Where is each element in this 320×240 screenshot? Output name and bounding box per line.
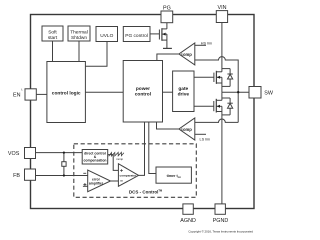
ground under PG transistor xyxy=(166,40,168,48)
wire LS drain to SW node xyxy=(221,92,223,100)
wire error amplifier output to DCS comparator xyxy=(111,180,119,182)
node Vref stub to error amplifier + input xyxy=(83,185,88,187)
svg-text:gate: gate xyxy=(178,86,188,92)
pin PG xyxy=(161,11,173,23)
box timer ton xyxy=(156,167,191,183)
op-amp DCS comparator xyxy=(118,164,138,187)
wire direct control to DCS comparator input xyxy=(108,155,119,171)
svg-text:AGND: AGND xyxy=(180,218,196,224)
svg-text:comparator: comparator xyxy=(119,174,137,178)
svg-text:power: power xyxy=(136,86,150,92)
node FB junction xyxy=(63,174,65,176)
wire soft start to control logic xyxy=(52,41,54,62)
svg-text:PG: PG xyxy=(163,5,171,11)
svg-text:UVLO: UVLO xyxy=(100,33,113,39)
svg-text:comp: comp xyxy=(181,127,193,132)
op-amp error amplifier xyxy=(83,170,110,192)
box thermal shutdown xyxy=(68,26,90,41)
svg-text:SW: SW xyxy=(264,90,274,96)
svg-text:Soft: Soft xyxy=(48,29,57,35)
box power control xyxy=(123,61,162,123)
svg-text:Copyright © 2016, Texas Instru: Copyright © 2016, Texas Instruments Inco… xyxy=(188,230,253,234)
wire HS comp sense input to SW node (hop over VIN line) xyxy=(195,57,238,93)
wire EN to control logic xyxy=(36,93,47,95)
svg-text:ramp: ramp xyxy=(116,157,123,161)
node HS lim reference stub xyxy=(195,44,206,46)
op-amp comp LS current limit xyxy=(179,118,195,140)
wire DCS comparator output to power control xyxy=(139,122,145,175)
transistor Q3 low-side FET xyxy=(214,99,222,113)
svg-text:VIN: VIN xyxy=(218,5,227,11)
ramp sawtooth symbol xyxy=(109,152,124,156)
wire gate drive to LS FET gate xyxy=(194,105,214,107)
wire timer to power control xyxy=(149,122,156,174)
svg-text:compensation: compensation xyxy=(84,159,107,163)
wire LS comp sense input to SW node (hop over output line) xyxy=(195,119,238,122)
box UVLO xyxy=(96,27,118,42)
svg-text:PG control: PG control xyxy=(125,33,148,39)
svg-text:start: start xyxy=(48,35,58,41)
wire thermal shutdown to control logic xyxy=(78,41,80,62)
wire LS comp output to power control xyxy=(157,122,179,129)
svg-text:Shtdwn: Shtdwn xyxy=(71,35,87,41)
svg-text:control logic: control logic xyxy=(52,91,81,97)
svg-text:PGND: PGND xyxy=(213,218,229,224)
node VOS junction xyxy=(63,152,65,154)
svg-text:FB: FB xyxy=(13,173,20,179)
PG transistor Q1 xyxy=(159,23,167,41)
pin AGND xyxy=(183,204,193,214)
wire VIN to HS FET drain xyxy=(221,23,223,72)
pin PGND xyxy=(215,204,225,214)
wire FB line to error amplifier xyxy=(36,175,88,177)
svg-text:control: control xyxy=(135,92,151,98)
wire HS source to SW node xyxy=(221,83,223,92)
box soft start xyxy=(42,26,63,41)
node LS lim reference stub xyxy=(195,133,206,135)
op-amp comp HS current limit xyxy=(179,43,195,65)
node SW sense junction xyxy=(237,91,239,93)
wire SW sense vertical xyxy=(237,92,239,122)
transistor Q2 high-side FET xyxy=(214,71,222,84)
wire HS comp output to power control xyxy=(157,54,179,61)
pin VIN xyxy=(216,11,227,23)
svg-text:HS lim: HS lim xyxy=(201,42,212,46)
svg-text:VOS: VOS xyxy=(8,151,20,157)
resistor R1 divider between VOS and FB xyxy=(63,153,65,176)
box direct control and compensation xyxy=(82,150,108,165)
wire gate drive to HS FET gate xyxy=(194,76,214,78)
svg-text:EN: EN xyxy=(13,92,21,98)
diode D2 LS body diode xyxy=(222,98,233,115)
box PG control xyxy=(123,27,150,42)
wire UVLO to control logic xyxy=(85,42,107,67)
IC outer border xyxy=(31,15,255,209)
diode D1 HS body diode xyxy=(222,69,233,87)
wire control logic to power control xyxy=(85,91,123,93)
box gate drive xyxy=(173,71,194,112)
svg-text:Thermal: Thermal xyxy=(70,29,88,35)
svg-text:comp: comp xyxy=(181,52,193,57)
pin FB xyxy=(25,169,36,180)
svg-text:amplifier: amplifier xyxy=(89,182,104,186)
pin SW xyxy=(249,87,261,99)
wire SW node to SW pin xyxy=(222,91,249,93)
wire power control to gate drive xyxy=(163,91,173,93)
wire LS source to PGND xyxy=(221,112,223,205)
pin EN xyxy=(25,89,36,100)
box control logic xyxy=(47,62,86,123)
svg-text:LS lim: LS lim xyxy=(200,137,211,141)
DCS-Control dashed boundary xyxy=(74,144,197,198)
pin VOS xyxy=(25,148,36,159)
svg-text:DCS - ControlTM: DCS - ControlTM xyxy=(129,189,162,195)
wire VOS line xyxy=(36,152,83,154)
wire PG control to PG transistor gate xyxy=(150,33,159,35)
svg-text:drive: drive xyxy=(178,92,190,98)
